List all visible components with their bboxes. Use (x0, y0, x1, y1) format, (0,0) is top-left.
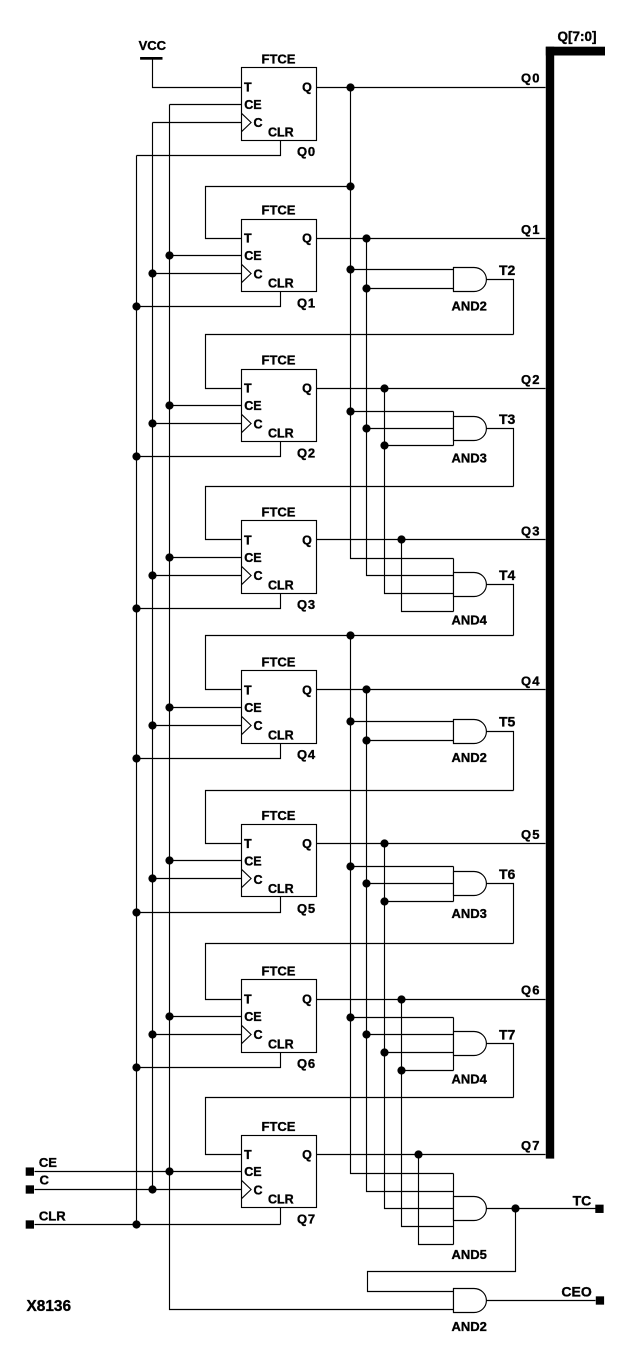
svg-text:T: T (244, 837, 252, 851)
svg-text:T: T (244, 1148, 252, 1162)
wire C stub Q4 (153, 725, 242, 727)
wire T6 input 2 stub (367, 883, 454, 885)
svg-text:Q2: Q2 (297, 445, 316, 460)
svg-text:T2: T2 (499, 262, 516, 278)
wire T feed loop Q2 (206, 335, 514, 389)
svg-text:AND2: AND2 (452, 298, 487, 313)
wire CE stub Q4 (170, 707, 242, 709)
junction T6 input 3 (380, 897, 388, 905)
svg-text:C: C (254, 1184, 263, 1198)
and-gate AND2 (T5) (454, 720, 487, 744)
svg-text:CE: CE (244, 551, 261, 565)
wire T feed loop Q5 (206, 791, 514, 844)
wire T2 output drop (487, 280, 514, 335)
svg-text:Q2: Q2 (521, 372, 541, 387)
svg-text:T: T (244, 533, 252, 547)
svg-text:Q: Q (302, 81, 312, 95)
wire Q0 output to bus (317, 87, 546, 89)
svg-text:T5: T5 (499, 714, 516, 730)
svg-text:T: T (244, 993, 252, 1007)
svg-text:TC: TC (573, 1192, 592, 1208)
wire T5 input 2 stub (367, 740, 454, 742)
wire Q7 output to bus (317, 1154, 546, 1156)
wire CLR return Q2 (137, 442, 281, 457)
and-gate AND2 (CEO) (454, 1289, 487, 1313)
svg-text:CE: CE (244, 701, 261, 715)
svg-text:AND2: AND2 (452, 1319, 487, 1334)
wire T3 input 3 stub (385, 445, 454, 447)
svg-text:T4: T4 (499, 567, 516, 583)
junction T7 input 4 (397, 1066, 405, 1074)
svg-text:C: C (254, 569, 263, 583)
wire T5 output drop (487, 732, 514, 791)
svg-text:AND5: AND5 (452, 1247, 487, 1262)
svg-text:Q: Q (302, 1148, 312, 1162)
svg-text:Q: Q (302, 382, 312, 396)
junction Q2 output tap (380, 384, 388, 392)
and-gate AND3 (T3) (454, 412, 487, 446)
wire Q6 tap vertical (lower) (402, 1000, 454, 1227)
svg-text:AND2: AND2 (452, 750, 487, 765)
wire C stub Q5 (153, 878, 242, 880)
junction T6 input 1 (346, 862, 354, 870)
wire Q1 tap vertical (367, 239, 454, 576)
wire VCC to T of Q0 (153, 60, 242, 88)
junction T4 tap (346, 631, 354, 639)
wire CE rail vertical (170, 105, 454, 1310)
svg-text:Q[7:0]: Q[7:0] (558, 29, 597, 44)
svg-text:Q: Q (302, 837, 312, 851)
flip-flop Q0 (FTCE) body (242, 68, 317, 141)
svg-text:Q0: Q0 (297, 144, 316, 159)
junction T3 input 3 (380, 441, 388, 449)
wire T3 input 2 stub (367, 428, 454, 430)
svg-text:Q5: Q5 (297, 901, 316, 916)
wire T2 input 1 stub (351, 269, 454, 271)
svg-text:CE: CE (244, 249, 261, 263)
svg-text:T: T (244, 232, 252, 246)
wire CE stub Q2 (170, 405, 242, 407)
svg-text:AND4: AND4 (452, 1071, 488, 1086)
svg-text:C: C (254, 267, 263, 281)
svg-text:Q7: Q7 (297, 1212, 316, 1227)
svg-text:Q0: Q0 (521, 71, 541, 86)
svg-text:AND3: AND3 (452, 450, 487, 465)
wire T feed loop Q6 (206, 944, 514, 1000)
wire Q1 output to bus (317, 238, 546, 240)
svg-text:C: C (254, 873, 263, 887)
wire C stub Q0 (153, 122, 242, 124)
junction CE rail at Q5 (165, 856, 173, 864)
flip-flop Q5 (FTCE) body (242, 825, 317, 897)
junction CE rail at Q6 (165, 1012, 173, 1020)
wire TC output (487, 1208, 596, 1210)
wire CLR return Q1 (137, 292, 281, 307)
svg-text:Q: Q (302, 993, 312, 1007)
junction Q6 tap (397, 995, 405, 1003)
svg-text:CE: CE (39, 1155, 57, 1170)
flip-flop Q1 (FTCE) body (242, 220, 317, 292)
svg-text:C: C (40, 1173, 50, 1188)
junction TC branch (511, 1204, 519, 1212)
wire C stub Q1 (153, 273, 242, 275)
svg-text:C: C (254, 1028, 263, 1042)
wire CLR return Q0 (137, 141, 281, 156)
and-gate AND5 (TC) (454, 1174, 487, 1245)
junction T2 input 2 (362, 284, 370, 292)
svg-text:CLR: CLR (268, 578, 294, 592)
wire CE stub Q3 (170, 557, 242, 559)
svg-text:FTCE: FTCE (262, 203, 296, 218)
wire Q0 tap vertical (351, 88, 454, 559)
flip-flop Q4 (FTCE) body (242, 671, 317, 744)
wire Q3 tap vertical (402, 540, 454, 612)
junction C rail at Q6 (148, 1030, 156, 1038)
junction Q4 tap (362, 685, 370, 693)
svg-text:T3: T3 (499, 411, 516, 427)
wire Q4 output to bus (317, 689, 546, 691)
and-gate AND3 (T6) (454, 867, 487, 902)
junction CLR rail at input wire (132, 1220, 140, 1228)
svg-text:T: T (244, 683, 252, 697)
wire T6 output drop (487, 884, 514, 944)
input terminal C (26, 1173, 50, 1194)
svg-text:CLR: CLR (268, 728, 294, 742)
junction CE rail at Q4 (165, 703, 173, 711)
junction T5 input 2 (362, 736, 370, 744)
svg-text:AND3: AND3 (452, 906, 487, 921)
wire T3 output drop (487, 429, 514, 487)
svg-text:AND4: AND4 (452, 612, 488, 627)
wire T feed loop Q4 (206, 636, 514, 690)
junction CLR rail at Q6 (132, 1063, 140, 1071)
svg-text:T: T (244, 382, 252, 396)
junction CLR rail at Q1 (132, 302, 140, 310)
svg-text:FTCE: FTCE (262, 654, 296, 669)
svg-text:FTCE: FTCE (262, 353, 296, 368)
junction T3 input 2 (362, 424, 370, 432)
wire CLR return Q6 (137, 1053, 281, 1068)
svg-text:Q4: Q4 (521, 674, 541, 689)
svg-text:CE: CE (244, 399, 261, 413)
svg-text:CE: CE (244, 1010, 261, 1024)
wire T5 input 1 stub (351, 721, 454, 723)
svg-text:Q4: Q4 (297, 747, 316, 762)
junction T6 input 2 (362, 879, 370, 887)
junction Q0 output tap (346, 83, 354, 91)
svg-text:Q5: Q5 (521, 827, 541, 842)
wire CLR drop Q7 (280, 1208, 282, 1225)
input terminal CLR (26, 1209, 67, 1229)
svg-text:CLR: CLR (268, 427, 294, 441)
junction C rail at Q3 (148, 571, 156, 579)
svg-text:Q3: Q3 (521, 524, 541, 539)
wire T3 input 1 stub (351, 411, 454, 413)
wire CLR return Q4 (137, 744, 281, 759)
svg-text:T6: T6 (499, 866, 516, 882)
wire T6 input 1 stub (351, 866, 454, 868)
svg-text:FTCE: FTCE (262, 52, 296, 67)
svg-text:CEO: CEO (561, 1284, 591, 1300)
wire CE stub Q0 (170, 104, 242, 106)
junction T5 input 1 (346, 717, 354, 725)
junction T7 input 1 (346, 1013, 354, 1021)
svg-text:CE: CE (244, 855, 261, 869)
junction C rail at Q5 (148, 874, 156, 882)
wire T6 input 3 stub (385, 901, 454, 903)
svg-text:FTCE: FTCE (262, 1119, 296, 1134)
wire Q6 output to bus (317, 999, 546, 1001)
svg-text:CE: CE (244, 1165, 261, 1179)
wire C rail vertical (152, 123, 154, 1190)
svg-text:FTCE: FTCE (262, 808, 296, 823)
svg-text:Q1: Q1 (521, 222, 541, 237)
junction CLR rail at Q2 (132, 452, 140, 460)
junction CE rail at Q3 (165, 553, 173, 561)
junction Q1 output tap (362, 234, 370, 242)
svg-text:VCC: VCC (139, 38, 167, 53)
svg-text:T: T (244, 81, 252, 95)
wire T4 tap vertical (lower) (351, 636, 454, 1174)
wire T feed loop Q7 (206, 1098, 514, 1155)
svg-text:FTCE: FTCE (262, 504, 296, 519)
junction Q0 vertical at Q1 T feed (346, 182, 354, 190)
svg-text:CE: CE (244, 98, 261, 112)
svg-text:Q: Q (302, 683, 312, 697)
junction CE rail at Q2 (165, 401, 173, 409)
wire T feed loop Q1 (206, 187, 351, 239)
wire C stub Q6 (153, 1034, 242, 1036)
wire CE stub Q5 (170, 860, 242, 862)
wire Q2 tap vertical (385, 389, 454, 594)
wire C stub Q3 (153, 575, 242, 577)
output terminal TC (595, 1205, 603, 1213)
junction CLR rail at Q5 (132, 908, 140, 916)
svg-text:CLR: CLR (39, 1209, 66, 1224)
junction C rail at Q4 (148, 721, 156, 729)
and-gate AND2 (T2) (454, 268, 487, 292)
svg-text:Q1: Q1 (297, 295, 316, 310)
svg-text:T7: T7 (499, 1026, 516, 1042)
junction T7 input 2 (362, 1030, 370, 1038)
svg-text:Q: Q (302, 232, 312, 246)
and-gate AND4 (T7) (454, 1018, 487, 1071)
wire T7 input 3 stub (385, 1052, 454, 1054)
wire T4 output drop (487, 585, 514, 636)
flip-flop Q2 (FTCE) body (242, 370, 317, 442)
flip-flop Q6 (FTCE) body (242, 980, 317, 1053)
wire T7 output drop (487, 1044, 514, 1098)
wire CE stub Q6 (170, 1016, 242, 1018)
svg-text:CLR: CLR (268, 277, 294, 291)
wire T7 input 2 stub (367, 1034, 454, 1036)
svg-text:Q3: Q3 (297, 597, 316, 612)
wire CLR return Q5 (137, 897, 281, 913)
output terminal CEO (596, 1296, 604, 1304)
svg-text:C: C (254, 417, 263, 431)
wire Q5 tap vertical (lower) (385, 844, 454, 1209)
wire CE stub Q1 (170, 255, 242, 257)
wire T2 input 2 stub (367, 288, 454, 290)
junction C rail at Q2 (148, 419, 156, 427)
junction T3 input 1 (346, 407, 354, 415)
junction CLR rail at Q3 (132, 604, 140, 612)
svg-text:CLR: CLR (268, 1037, 294, 1051)
svg-text:X8136: X8136 (27, 1298, 72, 1315)
wire Q3 output to bus (317, 539, 546, 541)
junction T2 input 1 (346, 265, 354, 273)
wire Q5 output to bus (317, 843, 546, 845)
wire Q2 output to bus (317, 388, 546, 390)
input terminal CE (26, 1155, 58, 1176)
wire C input to Q7.C (35, 1189, 242, 1191)
wire CLR return Q3 (137, 594, 281, 609)
flip-flop Q3 (FTCE) body (242, 521, 317, 594)
wire CLR input to Q7.CLR drop (35, 1224, 281, 1226)
junction Q3 output tap (397, 535, 405, 543)
junction CE rail at Q1 (165, 251, 173, 259)
svg-text:CLR: CLR (268, 1193, 294, 1207)
flip-flop Q7 (FTCE) body (242, 1136, 317, 1208)
junction C rail at Q1 (148, 269, 156, 277)
svg-text:Q6: Q6 (297, 1056, 316, 1071)
junction Q7 tap (414, 1150, 422, 1158)
bus Q[7:0] (546, 47, 605, 1159)
junction C rail at input wire (148, 1185, 156, 1193)
wire CE input to Q7.CE (35, 1171, 242, 1173)
wire T7 input 1 stub (351, 1017, 454, 1019)
wire Q7 tap vertical (lower) (419, 1155, 454, 1245)
wire Q4 tap vertical (lower) (367, 690, 454, 1192)
wire CLR rail vertical (136, 156, 138, 1225)
and-gate AND4 (T4) (454, 559, 487, 612)
junction CE rail at input wire (165, 1167, 173, 1175)
svg-text:Q: Q (302, 533, 312, 547)
wire T7 input 4 stub (402, 1070, 454, 1072)
wire CEO output (487, 1300, 596, 1302)
svg-text:Q7: Q7 (521, 1138, 541, 1153)
svg-text:Q6: Q6 (521, 983, 541, 998)
svg-text:C: C (254, 116, 263, 130)
wire C stub Q2 (153, 423, 242, 425)
power symbol VCC (139, 38, 167, 60)
wire T feed loop Q3 (206, 487, 514, 540)
junction Q5 tap (380, 839, 388, 847)
svg-text:CLR: CLR (268, 125, 294, 139)
junction T7 input 3 (380, 1048, 388, 1056)
svg-text:CLR: CLR (268, 882, 294, 896)
wire TC to CEO gate (368, 1209, 516, 1292)
junction CLR rail at Q4 (132, 754, 140, 762)
svg-text:FTCE: FTCE (262, 964, 296, 979)
svg-text:C: C (254, 719, 263, 733)
